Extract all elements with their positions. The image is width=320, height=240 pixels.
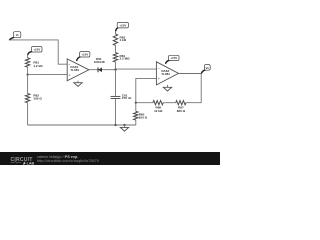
ground under OA61	[74, 81, 82, 87]
wire OA61 output to node	[89, 69, 116, 71]
svg-text:+15V: +15V	[170, 56, 177, 60]
resistor R61	[25, 54, 29, 74]
op-amp OA62	[156, 62, 178, 85]
svg-text:+15V: +15V	[81, 53, 88, 57]
CircuitLab logo	[11, 157, 35, 165]
resistor R62	[25, 75, 29, 125]
wire bottom rail	[28, 124, 136, 126]
svg-text:2.2 MΩ: 2.2 MΩ	[120, 57, 131, 61]
footer attribution text	[37, 155, 99, 163]
svg-text:Vo: Vo	[206, 66, 210, 70]
node junction diode/R64/C61/OA62-	[114, 68, 116, 70]
wire Vi to OA61 inverting input	[9, 40, 67, 64]
resistor R67	[163, 101, 186, 105]
capacitor C61	[111, 70, 121, 125]
resistor R64	[113, 53, 117, 70]
svg-text:TL081: TL081	[70, 68, 79, 72]
svg-text:100 Ω: 100 Ω	[33, 97, 42, 101]
label C61 470 nF	[122, 93, 132, 100]
wire node to OA62 inverting input	[116, 68, 157, 70]
svg-text:http://circuitlab.com/c/nuq6v/: http://circuitlab.com/c/nuq6v/fo75679	[37, 159, 99, 163]
svg-text:470 nF: 470 nF	[122, 96, 132, 100]
ground on bottom rail	[120, 125, 128, 131]
resistor R65	[134, 103, 138, 125]
label D61 1N4148	[94, 57, 105, 64]
node Vo flag (right)	[202, 65, 211, 73]
op-amp OA61	[67, 59, 89, 81]
label R66 12 kΩ	[154, 106, 163, 113]
svg-text:820 Ω: 820 Ω	[177, 109, 186, 113]
svg-text:1 kΩ: 1 kΩ	[120, 38, 127, 42]
node junction ground/bottom rail	[123, 124, 125, 126]
label R63 1 kΩ	[120, 35, 127, 42]
node junction R61/R62/OA61+	[27, 74, 29, 76]
resistor R66	[136, 101, 163, 105]
label R64 2.2 MΩ	[120, 54, 131, 61]
label R62 100 Ω	[33, 94, 42, 101]
+15V flag at OA62 V+	[166, 55, 179, 63]
node junction C61/bottom rail	[114, 124, 116, 126]
node Vi flag (top-left)	[10, 32, 21, 40]
label R65 100 Ω	[139, 113, 148, 120]
svg-text:⚡LAB: ⚡LAB	[22, 160, 35, 165]
+15V flag at OA61 V+	[77, 52, 90, 61]
svg-text:1.2 kΩ: 1.2 kΩ	[33, 64, 43, 68]
svg-text:+15V: +15V	[33, 48, 40, 52]
svg-text:100 Ω: 100 Ω	[139, 116, 148, 120]
resistor R63	[113, 31, 117, 53]
node junction R65/R66/OA62+	[135, 102, 137, 104]
diode D61	[98, 67, 102, 72]
label R61 1.2 kΩ	[33, 61, 43, 68]
svg-text:12 kΩ: 12 kΩ	[154, 109, 163, 113]
svg-text:Vi: Vi	[16, 33, 19, 37]
label R67 820 Ω	[177, 106, 186, 113]
svg-text:TL081: TL081	[161, 72, 170, 76]
wire junction to OA61 non-inverting input	[28, 74, 68, 76]
wire OA62 non-inverting input to feedback node	[136, 78, 157, 102]
svg-text:1N4148: 1N4148	[94, 60, 105, 64]
footer bar	[0, 152, 220, 165]
+15V flag at R61 top	[28, 47, 42, 55]
wire OA62 output to feedback corner	[179, 74, 202, 103]
svg-text:+15V: +15V	[119, 24, 126, 28]
ground under OA62	[163, 85, 171, 91]
svg-text:valerio hidalgo / PS exp.: valerio hidalgo / PS exp.	[37, 155, 78, 159]
+15V flag at R63 top	[116, 22, 129, 31]
